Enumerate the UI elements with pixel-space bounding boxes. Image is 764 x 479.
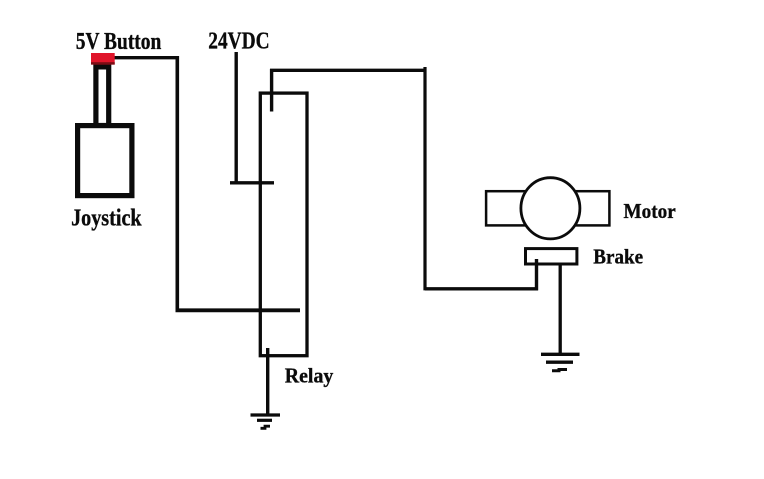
- relay top pin stub: [270, 69, 273, 112]
- svg-text:Motor: Motor: [624, 199, 677, 223]
- relay K1 box: [260, 93, 307, 356]
- relay bottom pin wire: [266, 348, 269, 415]
- motor frame right: [553, 191, 609, 225]
- wire down right side: [423, 67, 426, 290]
- joystick body: [78, 126, 132, 196]
- relay pin tick 24VDC: [230, 181, 274, 184]
- svg-text:Brake: Brake: [593, 245, 643, 269]
- svg-text:5V Button: 5V Button: [76, 29, 162, 55]
- ground GND1 squiggle: [261, 426, 271, 428]
- brake stub up: [535, 259, 538, 290]
- ground GND2 bar1: [541, 353, 580, 356]
- svg-text:Relay: Relay: [285, 363, 334, 387]
- ground GND2 bar2: [546, 361, 573, 364]
- motor frame left: [486, 191, 548, 225]
- wire brake to ground: [559, 265, 562, 354]
- motor M1 body: [521, 178, 580, 239]
- wire into relay lower-left: [176, 308, 301, 312]
- wire 24VDC down: [234, 52, 237, 184]
- joystick stem: [96, 67, 109, 126]
- wire down from button wire: [176, 56, 180, 310]
- wire to brake: [425, 287, 538, 290]
- wire relay top to right: [270, 69, 425, 72]
- svg-text:Joystick: Joystick: [71, 205, 142, 231]
- button 5V (red): [91, 53, 115, 65]
- ground GND2 squiggle: [552, 370, 567, 371]
- wire button to right: [113, 56, 177, 59]
- ground GND1 bar1: [251, 413, 281, 416]
- brake B1 box: [526, 249, 577, 264]
- svg-text:24VDC: 24VDC: [208, 29, 269, 55]
- ground GND1 bar2: [257, 419, 272, 422]
